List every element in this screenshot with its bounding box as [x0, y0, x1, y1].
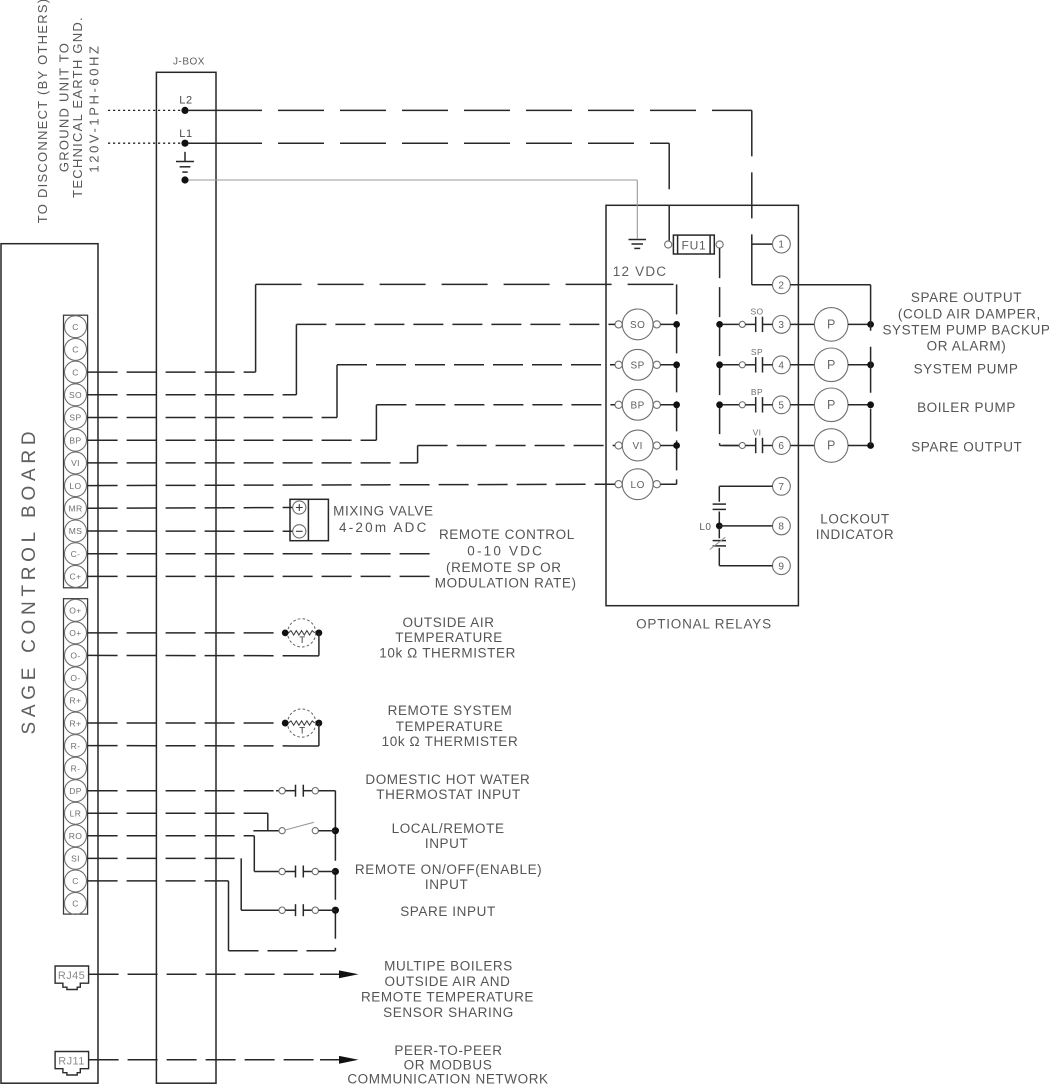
svg-text:INDICATOR: INDICATOR [816, 527, 894, 542]
svg-text:9: 9 [778, 561, 784, 572]
svg-text:LOCKOUT: LOCKOUT [820, 512, 889, 527]
svg-text:3: 3 [778, 320, 784, 331]
svg-text:DOMESTIC HOT WATER: DOMESTIC HOT WATER [365, 772, 530, 787]
svg-text:T: T [299, 635, 305, 646]
svg-text:BP: BP [631, 400, 645, 411]
svg-text:SP: SP [631, 360, 645, 371]
svg-text:SO: SO [750, 306, 763, 316]
svg-text:LOCAL/REMOTE: LOCAL/REMOTE [392, 821, 505, 836]
svg-text:RJ45: RJ45 [58, 970, 85, 982]
svg-text:RO: RO [69, 831, 83, 841]
svg-text:10k Ω THERMISTER: 10k Ω THERMISTER [382, 734, 519, 749]
svg-text:MULTIPE BOILERS: MULTIPE BOILERS [384, 959, 513, 974]
svg-text:SPARE OUTPUT: SPARE OUTPUT [911, 290, 1022, 305]
svg-text:C: C [72, 367, 79, 377]
svg-text:O+: O+ [69, 628, 81, 638]
svg-text:L0: L0 [699, 522, 711, 533]
svg-text:SYSTEM PUMP BACKUP: SYSTEM PUMP BACKUP [882, 323, 1049, 338]
svg-text:T: T [299, 725, 305, 736]
svg-text:BOILER PUMP: BOILER PUMP [917, 400, 1016, 415]
svg-text:C+: C+ [70, 572, 82, 582]
svg-text:LO: LO [69, 481, 81, 491]
svg-text:COMMUNICATION NETWORK: COMMUNICATION NETWORK [347, 1072, 548, 1087]
svg-text:BP: BP [69, 435, 81, 445]
svg-text:VI: VI [632, 441, 642, 452]
svg-text:8: 8 [778, 522, 784, 533]
svg-text:VI: VI [71, 458, 80, 468]
svg-text:O+: O+ [69, 606, 81, 616]
svg-text:R+: R+ [70, 718, 82, 728]
svg-text:MIXING VALVE: MIXING VALVE [333, 504, 433, 519]
svg-text:OUTSIDE AIR AND: OUTSIDE AIR AND [384, 974, 510, 989]
svg-text:SPARE OUTPUT: SPARE OUTPUT [911, 439, 1022, 454]
svg-text:P: P [827, 358, 835, 372]
svg-text:L2: L2 [179, 94, 192, 106]
svg-text:R+: R+ [70, 696, 82, 706]
svg-text:REMOTE CONTROL: REMOTE CONTROL [439, 527, 575, 542]
svg-text:LR: LR [70, 808, 82, 818]
svg-text:SO: SO [630, 320, 645, 331]
svg-text:DP: DP [69, 786, 82, 796]
svg-text:SYSTEM PUMP: SYSTEM PUMP [914, 362, 1019, 377]
svg-text:FU1: FU1 [681, 239, 706, 253]
svg-text:TECHNICAL EARTH GND.: TECHNICAL EARTH GND. [70, 16, 85, 198]
svg-text:REMOTE SYSTEM: REMOTE SYSTEM [388, 703, 513, 718]
svg-text:REMOTE ON/OFF(ENABLE): REMOTE ON/OFF(ENABLE) [355, 862, 542, 877]
svg-text:O-: O- [70, 651, 80, 661]
svg-text:BP: BP [751, 387, 763, 397]
svg-text:O-: O- [70, 673, 80, 683]
svg-text:4-20m ADC: 4-20m ADC [339, 520, 429, 535]
svg-text:TO DISCONNECT (BY OTHERS),: TO DISCONNECT (BY OTHERS), [35, 0, 50, 223]
svg-text:SENSOR SHARING: SENSOR SHARING [383, 1005, 514, 1020]
svg-text:(REMOTE SP OR: (REMOTE SP OR [446, 560, 562, 575]
svg-text:12 VDC: 12 VDC [613, 264, 667, 279]
svg-text:1: 1 [778, 240, 784, 251]
svg-text:R-: R- [71, 741, 81, 751]
svg-text:SO: SO [69, 390, 82, 400]
svg-text:LO: LO [631, 480, 645, 491]
svg-text:OR MODBUS: OR MODBUS [404, 1057, 493, 1072]
svg-text:C-: C- [71, 549, 81, 559]
svg-text:INPUT: INPUT [425, 877, 469, 892]
svg-text:OUTSIDE AIR: OUTSIDE AIR [402, 615, 494, 630]
svg-text:OR ALARM): OR ALARM) [927, 338, 1007, 353]
svg-text:C: C [72, 876, 79, 886]
svg-text:C: C [72, 899, 79, 909]
svg-text:P: P [827, 398, 835, 412]
svg-text:THERMOSTAT INPUT: THERMOSTAT INPUT [376, 787, 521, 802]
svg-text:2: 2 [778, 280, 784, 291]
svg-text:C: C [72, 345, 79, 355]
svg-text:C: C [72, 322, 79, 332]
svg-text:TEMPERATURE: TEMPERATURE [396, 719, 504, 734]
svg-text:SI: SI [71, 854, 80, 864]
svg-text:120V-1PH-60HZ: 120V-1PH-60HZ [87, 43, 102, 172]
svg-text:7: 7 [778, 482, 784, 493]
svg-text:(COLD AIR DAMPER,: (COLD AIR DAMPER, [898, 306, 1041, 321]
svg-text:L1: L1 [179, 128, 192, 140]
svg-text:P: P [827, 318, 835, 332]
svg-text:0-10 VDC: 0-10 VDC [467, 544, 544, 559]
svg-text:INPUT: INPUT [425, 836, 469, 851]
svg-text:MR: MR [68, 504, 82, 514]
svg-text:OPTIONAL RELAYS: OPTIONAL RELAYS [636, 617, 772, 632]
svg-text:RJ11: RJ11 [58, 1056, 84, 1068]
svg-text:MS: MS [69, 526, 83, 536]
svg-text:VI: VI [753, 428, 762, 438]
svg-text:SAGE CONTROL BOARD: SAGE CONTROL BOARD [19, 427, 40, 735]
svg-text:SP: SP [69, 413, 81, 423]
svg-text:SP: SP [751, 347, 763, 357]
svg-text:P: P [827, 439, 835, 453]
svg-text:4: 4 [778, 360, 784, 371]
svg-text:TEMPERATURE: TEMPERATURE [395, 630, 503, 645]
svg-text:5: 5 [778, 400, 784, 411]
svg-text:R-: R- [71, 763, 81, 773]
svg-text:6: 6 [778, 441, 784, 452]
svg-text:J-BOX: J-BOX [173, 57, 205, 68]
svg-text:REMOTE TEMPERATURE: REMOTE TEMPERATURE [361, 990, 534, 1005]
svg-text:10k Ω THERMISTER: 10k Ω THERMISTER [379, 645, 516, 660]
svg-text:SPARE INPUT: SPARE INPUT [400, 904, 496, 919]
svg-text:PEER-TO-PEER: PEER-TO-PEER [394, 1043, 502, 1058]
svg-text:MODULATION RATE): MODULATION RATE) [435, 576, 577, 591]
